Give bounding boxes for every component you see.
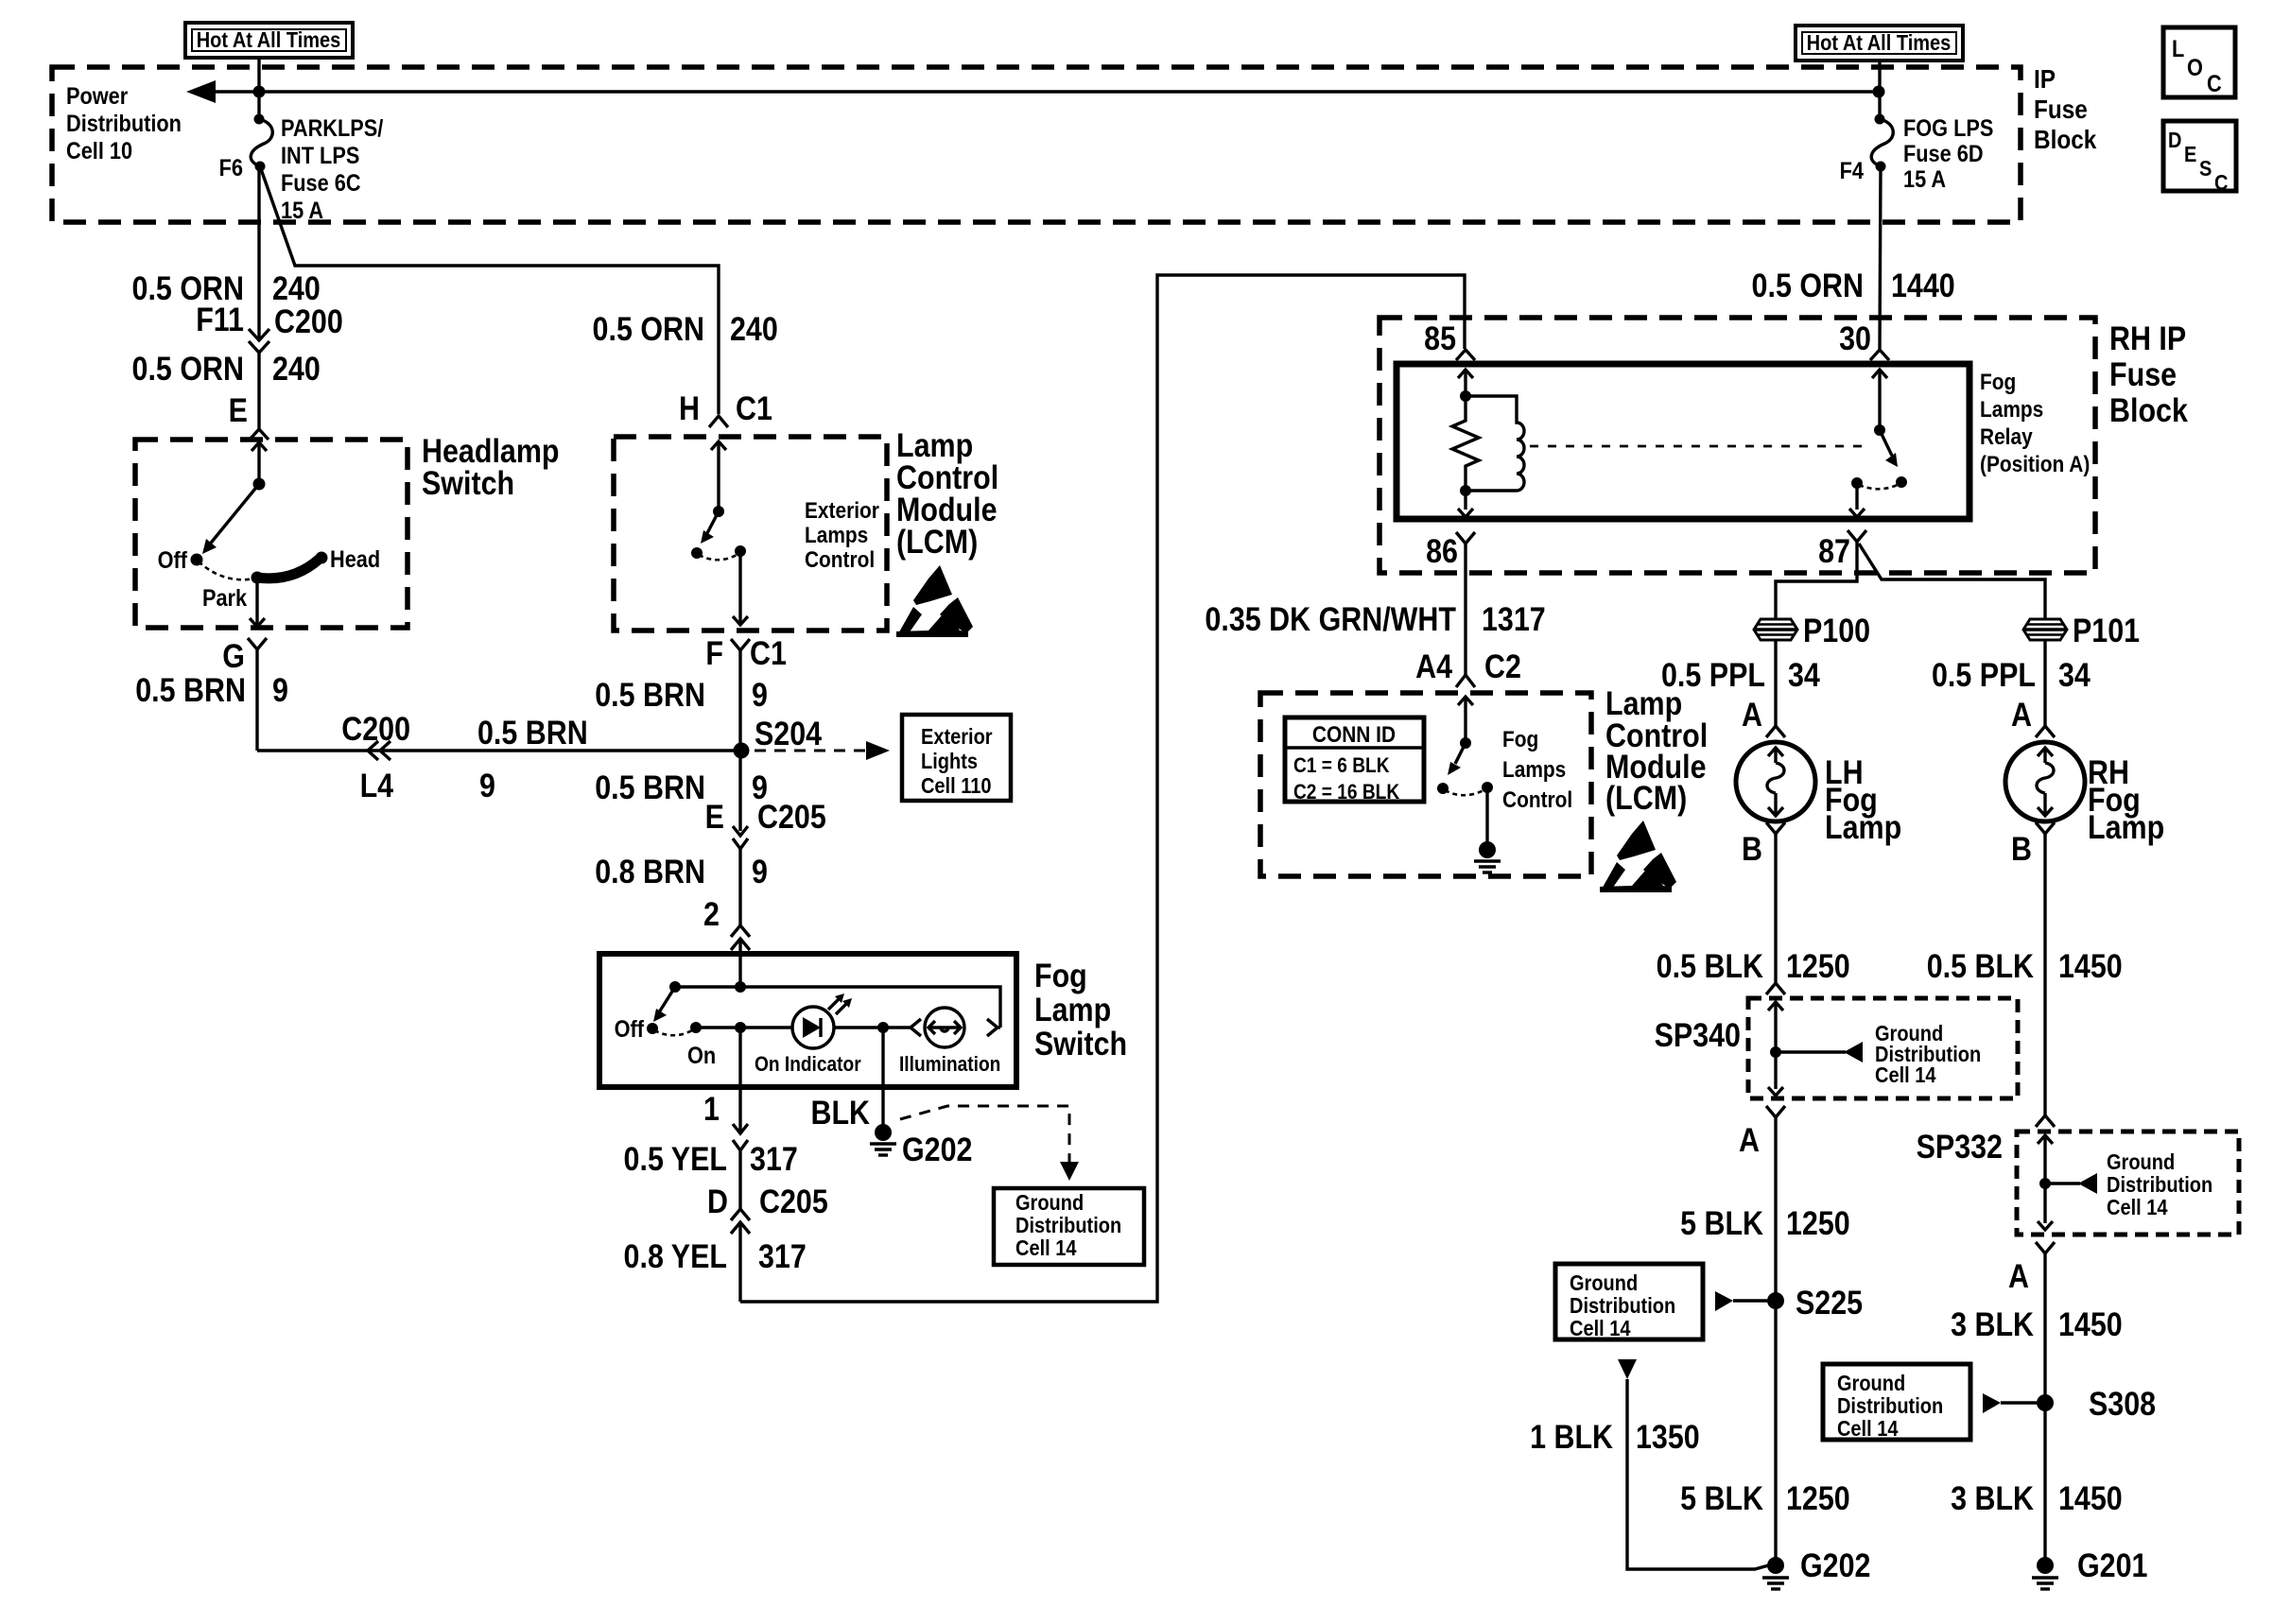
wire: fuse F6 tap to LCM pin H (diagonal + horizontal) <box>260 166 719 414</box>
connector C200 pin F11 (inline) <box>196 301 343 353</box>
svg-text:0.5 ORN: 0.5 ORN <box>132 350 244 387</box>
wire 0.35 DK GRN/WHT 1317 (86 to LCM pin A4) <box>1205 544 1545 675</box>
svg-text:Cell 14: Cell 14 <box>1570 1316 1631 1341</box>
headlamp switch: Head contact and thick arc <box>257 546 380 579</box>
svg-text:Distribution: Distribution <box>1570 1293 1675 1319</box>
svg-text:5 BLK: 5 BLK <box>1680 1479 1763 1516</box>
svg-text:RH IP: RH IP <box>2109 320 2186 356</box>
wire: relay pin 87 split to fog lamps <box>1776 542 2045 619</box>
fog lamp switch: feed and top rail <box>669 954 1000 1028</box>
Hot At All Times box (right) <box>1796 26 1963 60</box>
svg-text:E: E <box>229 391 248 428</box>
svg-text:1450: 1450 <box>2058 1479 2123 1516</box>
Headlamp Switch dashed box <box>135 440 408 628</box>
svg-text:Cell 14: Cell 14 <box>1015 1235 1077 1261</box>
LOC reference box <box>2163 27 2235 97</box>
svg-text:S225: S225 <box>1796 1284 1863 1321</box>
Fog Lamps Relay (Position A) label <box>1980 370 2090 477</box>
connector pin A of LH fog lamp <box>1742 696 1785 737</box>
svg-text:0.5 BRN: 0.5 BRN <box>595 769 705 805</box>
svg-text:9: 9 <box>752 676 768 713</box>
svg-text:85: 85 <box>1424 320 1456 356</box>
svg-text:Off: Off <box>158 547 188 574</box>
wire label 0.5 ORN 240 (LCM feed) <box>593 310 778 347</box>
svg-text:9: 9 <box>479 767 495 803</box>
Illumination lamp (dimmer) <box>883 1008 1000 1076</box>
connector pin A below SP332 <box>2008 1242 2055 1294</box>
svg-text:SP340: SP340 <box>1655 1016 1741 1053</box>
svg-text:A: A <box>1739 1121 1760 1158</box>
wire: right hot feed to fuse F4 <box>1878 60 1881 119</box>
svg-text:C2 = 16 BLK: C2 = 16 BLK <box>1293 781 1399 804</box>
svg-text:1350: 1350 <box>1636 1418 1700 1455</box>
Fog Lamps Relay box <box>1397 364 1969 519</box>
svg-text:0.8 BRN: 0.8 BRN <box>595 853 705 890</box>
svg-text:S204: S204 <box>755 715 823 752</box>
svg-text:Fog: Fog <box>1502 727 1538 752</box>
Lamp Control Module (LCM) label <box>896 426 998 560</box>
splice S225 <box>1767 1284 1863 1321</box>
svg-text:Ground: Ground <box>1837 1371 1905 1396</box>
relay actuation dashed line <box>1530 445 1865 448</box>
svg-text:2: 2 <box>703 895 720 932</box>
svg-text:C: C <box>2207 71 2222 97</box>
svg-text:On: On <box>687 1043 716 1069</box>
svg-text:1 BLK: 1 BLK <box>1530 1418 1613 1455</box>
connector pin G of headlamp switch <box>222 637 267 674</box>
fog lamp switch: wiper arm <box>653 987 675 1022</box>
svg-text:0.8 YEL: 0.8 YEL <box>624 1237 727 1274</box>
connector pin 2 of fog lamp switch <box>703 895 750 954</box>
svg-text:Distribution: Distribution <box>1837 1393 1943 1419</box>
connector C1 pin H <box>679 389 772 427</box>
svg-text:Control: Control <box>805 547 875 573</box>
relay coil branch: entry arrow and resistor <box>1452 370 1479 517</box>
grommet P101 <box>2023 612 2140 648</box>
svg-text:On Indicator: On Indicator <box>755 1053 861 1077</box>
svg-text:B: B <box>1742 830 1762 867</box>
svg-text:(LCM): (LCM) <box>1605 779 1687 816</box>
svg-text:0.5 ORN: 0.5 ORN <box>1752 267 1864 303</box>
svg-text:Lamps: Lamps <box>805 523 868 548</box>
svg-text:240: 240 <box>272 269 321 306</box>
wire 0.5 BRN 9 (S204 to C205 pin E) <box>595 751 768 831</box>
svg-text:Cell 14: Cell 14 <box>2107 1195 2168 1220</box>
svg-text:Fuse: Fuse <box>2034 94 2088 124</box>
On Indicator LED <box>755 993 883 1076</box>
RH Fog Lamp <box>2005 742 2164 845</box>
svg-text:0.35 DK GRN/WHT: 0.35 DK GRN/WHT <box>1205 600 1456 637</box>
ESD sensitive symbol (LCM right) <box>1600 821 1676 892</box>
svg-text:Fuse 6D: Fuse 6D <box>1903 141 1984 167</box>
svg-text:BLK: BLK <box>810 1094 870 1131</box>
svg-text:Fuse 6C: Fuse 6C <box>281 170 361 197</box>
connector pin 30 of fuse block <box>1839 320 1889 360</box>
svg-text:Hot At All Times: Hot At All Times <box>197 27 341 53</box>
svg-text:1250: 1250 <box>1786 1479 1850 1516</box>
wire 3 BLK 1450 (SP332 to S308) <box>1951 1253 2123 1403</box>
Fog Lamps Control switch (inside LCM right) <box>1437 697 1572 843</box>
DESC reference box <box>2163 121 2236 195</box>
svg-text:Lamps: Lamps <box>1502 757 1566 783</box>
svg-text:Cell 14: Cell 14 <box>1875 1063 1936 1088</box>
svg-text:(Position A): (Position A) <box>1980 452 2090 477</box>
svg-text:240: 240 <box>272 350 321 387</box>
fog lamp switch: On contact and lower rail <box>687 1022 792 1068</box>
svg-text:Lamp: Lamp <box>2088 808 2164 845</box>
svg-text:Cell 10: Cell 10 <box>66 138 132 164</box>
svg-text:Cell 110: Cell 110 <box>921 773 992 799</box>
svg-text:1450: 1450 <box>2058 947 2123 984</box>
headlamp switch: Park contact and output arrow <box>202 572 265 628</box>
svg-text:L4: L4 <box>360 767 394 803</box>
connector pin A of RH fog lamp <box>2011 696 2055 737</box>
splice SP332 dashed box <box>2017 1132 2239 1235</box>
connector into splice SP332 <box>1917 1115 2055 1165</box>
wire 0.5 YEL 317 (switch to C205 pin D) <box>624 1140 798 1209</box>
svg-text:Cell 14: Cell 14 <box>1837 1416 1899 1442</box>
connector pin 86 of fuse block <box>1426 532 1475 569</box>
connector C205 pin D (inline) <box>707 1183 828 1234</box>
wire 0.5 ORN 240 (C200 to headlamp switch pin E) <box>132 350 321 428</box>
svg-text:C: C <box>2214 170 2228 196</box>
svg-text:C1: C1 <box>750 634 787 671</box>
wire 0.5 PPL 34 (P100 to LH fog lamp pin A) <box>1661 640 1821 726</box>
svg-text:0.5 BLK: 0.5 BLK <box>1657 947 1764 984</box>
connector pin 87 of fuse block <box>1818 530 1866 569</box>
connector pin E of headlamp switch <box>229 391 269 440</box>
svg-text:34: 34 <box>2058 656 2091 693</box>
relay coil (parallel winding) <box>1466 396 1524 491</box>
svg-text:C1: C1 <box>736 389 772 426</box>
wire 0.5 ORN 1440 (F4 to relay pin 30) <box>1752 166 1955 349</box>
svg-text:Exterior: Exterior <box>805 498 879 524</box>
svg-text:A: A <box>2008 1257 2029 1294</box>
svg-text:1450: 1450 <box>2058 1305 2123 1342</box>
Headlamp Switch label <box>422 432 560 501</box>
svg-text:P101: P101 <box>2073 612 2140 648</box>
splice S204 <box>734 715 823 759</box>
headlamp switch: entry arrow <box>252 442 267 484</box>
svg-text:30: 30 <box>1839 320 1871 356</box>
svg-text:B: B <box>2011 830 2032 867</box>
ground G201 <box>2032 1546 2147 1589</box>
Ground Distribution Cell 14 box (S225) <box>1555 1264 1767 1340</box>
headlamp switch: dashed throw arc <box>199 561 255 579</box>
wire 0.8 BRN 9 (E to fog lamp switch pin 2) <box>595 849 768 925</box>
svg-text:G201: G201 <box>2077 1546 2147 1583</box>
wire 0.5 BRN 9 (F to S204) <box>595 650 768 751</box>
fog lamp switch: Off contact <box>615 1016 658 1043</box>
svg-text:G202: G202 <box>902 1131 972 1167</box>
Exterior Lamps Control switch (inside LCM) <box>691 441 879 625</box>
headlamp switch: pivot and wiper arm <box>202 478 266 555</box>
Lamp Control Module (LCM) label (right) <box>1605 684 1708 816</box>
svg-text:5 BLK: 5 BLK <box>1680 1204 1763 1241</box>
svg-text:0.5 ORN: 0.5 ORN <box>593 310 704 347</box>
svg-text:INT LPS: INT LPS <box>281 143 359 169</box>
ground G202 (body) <box>1762 1546 1870 1589</box>
svg-text:Distribution: Distribution <box>66 111 182 137</box>
wire 5 BLK 1250 (SP340 to S225) <box>1680 1117 1850 1301</box>
grommet P100 <box>1754 612 1870 648</box>
wire 1 BLK 1350 (ground distribution to G202) <box>1530 1359 1772 1569</box>
svg-text:IP: IP <box>2034 63 2056 94</box>
svg-text:F4: F4 <box>1840 158 1864 184</box>
wire 0.5 PPL 34 (P101 to RH fog lamp pin A) <box>1932 640 2091 726</box>
svg-text:SP332: SP332 <box>1917 1128 2003 1165</box>
svg-text:34: 34 <box>1788 656 1821 693</box>
SP332 internal wire and ground reference <box>2038 1135 2212 1230</box>
svg-text:Head: Head <box>330 546 380 573</box>
svg-text:0.5 BRN: 0.5 BRN <box>477 714 588 751</box>
RH IP Fuse Block dashed box <box>1379 318 2095 573</box>
svg-text:317: 317 <box>758 1237 807 1274</box>
junction node on hot bus (left) <box>253 86 266 98</box>
svg-text:Off: Off <box>615 1016 645 1043</box>
ground symbol (LCM fog lamps control) <box>1474 841 1501 872</box>
svg-text:Lamps: Lamps <box>1980 397 2043 423</box>
Lamp Control Module dashed box (LCM, exterior lamps) <box>614 437 887 631</box>
splice S308 <box>2037 1385 2156 1422</box>
fog lamp switch: dashed throw arc <box>654 1029 694 1035</box>
svg-text:Lamp: Lamp <box>1825 808 1901 845</box>
svg-text:0.5 BLK: 0.5 BLK <box>1927 947 2035 984</box>
wire: hot feed from box to fuse F6 <box>257 58 260 119</box>
svg-text:G: G <box>222 637 245 674</box>
svg-text:Exterior: Exterior <box>921 724 993 750</box>
wire 3 BLK 1450 (S308 to G201) <box>1951 1403 2123 1560</box>
svg-text:240: 240 <box>730 310 778 347</box>
connector C2 pin A4 <box>1415 648 1521 687</box>
svg-text:Ground: Ground <box>1570 1270 1638 1296</box>
svg-text:Ground: Ground <box>2107 1149 2175 1175</box>
Power Distribution Cell 10 label <box>66 83 182 164</box>
svg-text:Switch: Switch <box>422 464 514 501</box>
svg-text:15 A: 15 A <box>1903 166 1946 193</box>
svg-text:Power: Power <box>66 83 128 110</box>
svg-text:0.5 PPL: 0.5 PPL <box>1932 656 2036 693</box>
svg-text:C200: C200 <box>341 710 410 747</box>
svg-text:86: 86 <box>1426 532 1458 569</box>
svg-text:H: H <box>679 389 700 426</box>
svg-text:1440: 1440 <box>1891 267 1955 303</box>
connector pin A below SP340 <box>1739 1106 1785 1158</box>
svg-text:Switch: Switch <box>1034 1025 1127 1062</box>
hot bus wire with left arrow <box>186 80 1879 103</box>
svg-text:C200: C200 <box>274 302 343 339</box>
wire 0.5 BLK 1250 (LH lamp to SP340) <box>1657 834 1850 984</box>
dashed reference arrow to Exterior Lights <box>755 741 890 760</box>
svg-text:L: L <box>2172 36 2184 62</box>
headlamp switch: Off contact <box>158 547 203 574</box>
svg-text:O: O <box>2187 55 2203 81</box>
IP Fuse Block label <box>2034 63 2097 154</box>
splice SP340 dashed box <box>1655 998 2018 1098</box>
svg-text:9: 9 <box>752 853 768 890</box>
relay switch branch (position A) <box>1849 370 1907 517</box>
wire 0.5 BLK 1450 (RH lamp to SP332) <box>1927 834 2123 1115</box>
connector pin B of RH fog lamp <box>2011 822 2055 867</box>
svg-text:1: 1 <box>703 1090 720 1127</box>
junction to illumination and ground <box>877 1022 889 1033</box>
svg-text:E: E <box>2184 142 2196 167</box>
svg-text:Illumination: Illumination <box>899 1053 1000 1077</box>
svg-text:F11: F11 <box>196 301 244 337</box>
svg-text:PARKLPS/: PARKLPS/ <box>281 115 384 142</box>
svg-text:0.5 PPL: 0.5 PPL <box>1661 656 1765 693</box>
svg-text:Lamp: Lamp <box>1034 991 1111 1028</box>
svg-text:0.5 YEL: 0.5 YEL <box>624 1140 727 1177</box>
svg-text:1317: 1317 <box>1482 600 1546 637</box>
svg-text:A: A <box>2011 696 2032 733</box>
svg-text:G202: G202 <box>1800 1546 1870 1583</box>
svg-text:Distribution: Distribution <box>2107 1172 2212 1198</box>
svg-text:Relay: Relay <box>1980 424 2033 450</box>
Fog Lamp Switch label <box>1034 957 1127 1062</box>
svg-text:Distribution: Distribution <box>1015 1213 1121 1238</box>
ESD sensitive symbol (LCM) <box>896 565 973 637</box>
svg-text:Block: Block <box>2034 124 2097 154</box>
svg-text:P100: P100 <box>1803 612 1870 648</box>
dashed ground reference line to Ground Distribution <box>900 1106 1079 1181</box>
svg-text:S: S <box>2199 156 2212 181</box>
svg-text:C205: C205 <box>759 1183 828 1219</box>
svg-text:Fog: Fog <box>1034 957 1087 993</box>
svg-text:C205: C205 <box>757 798 826 835</box>
connector C205 pin E (inline) <box>705 798 826 849</box>
SP340 internal wire and ground reference <box>1768 1002 1981 1096</box>
svg-text:D: D <box>2168 128 2181 153</box>
svg-text:Ground: Ground <box>1015 1190 1084 1216</box>
svg-text:S308: S308 <box>2089 1385 2156 1422</box>
svg-text:9: 9 <box>272 671 288 708</box>
RH IP Fuse Block label <box>2109 320 2189 428</box>
connector pin B of LH fog lamp <box>1742 822 1785 867</box>
svg-text:C1 = 6 BLK: C1 = 6 BLK <box>1293 754 1390 778</box>
svg-text:F6: F6 <box>219 155 243 181</box>
svg-text:87: 87 <box>1818 532 1850 569</box>
svg-text:CONN ID: CONN ID <box>1312 722 1396 748</box>
connector pin 1 of fog lamp switch (output) <box>703 1028 748 1150</box>
connector into splice SP340 <box>1766 983 1785 994</box>
svg-text:0.5 BRN: 0.5 BRN <box>595 676 705 713</box>
wire 0.8 YEL 317 (C205 to fog lamps relay coil, long loop) <box>624 275 1465 1302</box>
svg-text:Park: Park <box>202 585 248 612</box>
svg-text:1250: 1250 <box>1786 1204 1850 1241</box>
fuse F4 FOG LPS Fuse 6D 15 A <box>1840 114 1994 193</box>
Exterior Lights Cell 110 reference box <box>902 715 1011 801</box>
Lamp Control Module dashed box (LCM, fog lamps) <box>1260 693 1591 876</box>
svg-text:D: D <box>707 1183 728 1219</box>
wire 0.5 ORN 240 (fuse F6 down to C200) <box>132 166 321 340</box>
wire BLK to ground G202 (from fog lamp switch) <box>810 1028 883 1131</box>
svg-text:Fuse: Fuse <box>2109 355 2177 392</box>
junction node on hot bus (right) <box>1873 86 1885 98</box>
svg-text:0.5 BRN: 0.5 BRN <box>135 671 246 708</box>
svg-text:Lights: Lights <box>921 749 978 774</box>
svg-text:FOG LPS: FOG LPS <box>1903 115 1993 142</box>
svg-text:A4: A4 <box>1415 648 1453 684</box>
connector pin 85 of fuse block <box>1424 320 1475 360</box>
CONN ID table <box>1285 717 1424 803</box>
svg-text:(LCM): (LCM) <box>896 523 978 560</box>
svg-text:15 A: 15 A <box>281 198 323 224</box>
wire 0.5 BRN 9 (G down and right to S204) <box>135 649 741 751</box>
svg-text:3 BLK: 3 BLK <box>1951 1479 2034 1516</box>
svg-text:F: F <box>705 634 723 671</box>
Hot At All Times box (left) <box>185 23 353 58</box>
svg-text:1250: 1250 <box>1786 947 1850 984</box>
svg-text:A: A <box>1742 696 1762 733</box>
LH Fog Lamp <box>1736 742 1901 845</box>
Fog Lamp Switch box <box>599 954 1016 1087</box>
IP fuse block dashed box <box>52 67 2021 222</box>
svg-text:3 BLK: 3 BLK <box>1951 1305 2034 1342</box>
svg-text:C2: C2 <box>1484 648 1521 684</box>
connector C1 pin F <box>705 634 787 671</box>
Ground Distribution Cell 14 box (fog lamp switch ground) <box>994 1188 1144 1265</box>
svg-text:E: E <box>705 798 724 835</box>
svg-text:Fog: Fog <box>1980 370 2016 395</box>
svg-text:Hot At All Times: Hot At All Times <box>1807 30 1952 56</box>
svg-text:317: 317 <box>750 1140 798 1177</box>
fuse F6 PARKLPS/INT LPS Fuse 6C 15 A <box>219 114 384 224</box>
Ground Distribution Cell 14 box (S308) <box>1823 1364 2037 1441</box>
ground G202 (fog lamp switch) <box>870 1124 972 1167</box>
svg-text:Block: Block <box>2109 391 2189 428</box>
wire label 0.5 BRN 9 (horizontal run) <box>477 714 588 803</box>
svg-text:Control: Control <box>1502 787 1572 813</box>
wire 5 BLK 1250 (S225 to G202) <box>1680 1301 1850 1560</box>
connector C200 pin L4 (inline, on horizontal wire) <box>341 710 410 803</box>
